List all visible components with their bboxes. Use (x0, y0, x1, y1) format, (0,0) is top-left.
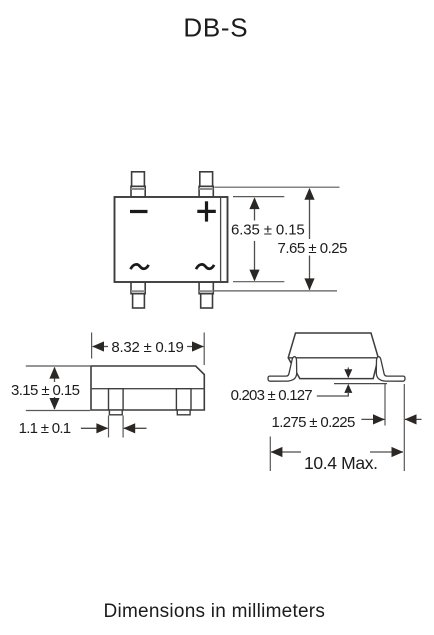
dimension 7.65 ± 0.25 (278, 188, 348, 290)
svg-text:1.275 ± 0.225: 1.275 ± 0.225 (272, 414, 355, 431)
dimension 6.35 ± 0.15 (231, 197, 305, 281)
plus symbol (197, 201, 216, 221)
dimension 1.275 ± 0.225 (272, 384, 422, 471)
svg-text:0.203 ± 0.127: 0.203 ± 0.127 (231, 387, 313, 404)
svg-text:8.32 ± 0.19: 8.32 ± 0.19 (111, 339, 183, 356)
seating plane line (334, 383, 387, 385)
svg-text:Dimensions in millimeters: Dimensions in millimeters (104, 601, 326, 622)
pin bottom-left (131, 282, 145, 308)
side view leg left (109, 389, 124, 415)
pin top-right (199, 172, 213, 197)
dimension 3.15 ± 0.15 (11, 366, 90, 411)
svg-text:1.1 ± 0.1: 1.1 ± 0.1 (19, 420, 71, 437)
dimension 1.1 ± 0.1 (19, 416, 147, 438)
dimension 10.4 Max. (270, 437, 403, 473)
end view lead right (gull-wing) (376, 357, 405, 382)
end view lead left (gull-wing) (268, 357, 297, 382)
svg-text:DB-S: DB-S (183, 13, 248, 43)
side view leg right (176, 389, 191, 415)
pin bottom-right (199, 282, 213, 308)
svg-text:7.65 ± 0.25: 7.65 ± 0.25 (278, 240, 348, 257)
end view body (288, 333, 378, 379)
minus symbol (130, 210, 148, 213)
footer note (104, 601, 326, 622)
tilde symbol left (131, 264, 149, 269)
dimension 8.32 ± 0.19 (92, 333, 205, 366)
dimension 0.203 ± 0.127 leader (231, 368, 353, 405)
title DB-S (183, 13, 248, 43)
pin top-left (131, 172, 145, 197)
extension lines top view (214, 187, 340, 291)
top view body (115, 197, 228, 282)
tilde symbol right (196, 264, 214, 269)
svg-text:3.15 ± 0.15: 3.15 ± 0.15 (11, 382, 80, 399)
svg-text:6.35 ± 0.15: 6.35 ± 0.15 (231, 222, 305, 239)
svg-text:10.4 Max.: 10.4 Max. (304, 453, 378, 473)
side view body (91, 366, 204, 410)
